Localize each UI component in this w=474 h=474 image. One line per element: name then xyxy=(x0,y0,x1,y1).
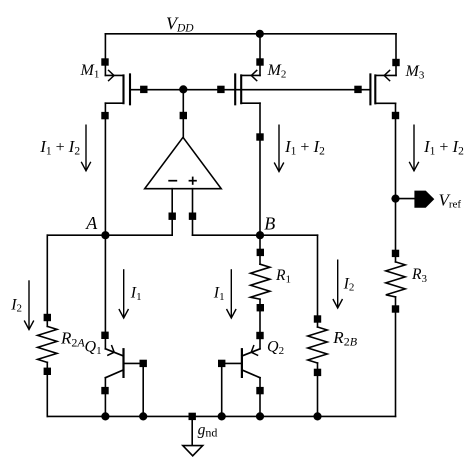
port square M3 source xyxy=(392,59,399,66)
junction dot gate bus xyxy=(179,85,187,93)
port square M3 gate xyxy=(354,86,361,93)
transistor M3 xyxy=(370,70,396,104)
junction dot Vref xyxy=(391,195,399,203)
port square Q1 base xyxy=(140,360,147,367)
node A xyxy=(101,231,109,239)
junction dot rail M2 xyxy=(256,30,264,38)
wire R2A branch upper xyxy=(46,235,48,326)
wire M3 source from rail xyxy=(395,34,397,76)
wire M1 source from rail xyxy=(104,34,106,76)
junction dot ground R2B xyxy=(313,412,321,420)
junction dot ground Q1 collector xyxy=(101,412,109,420)
port square Q2 collector xyxy=(256,387,263,394)
wire op-amp inverting input xyxy=(171,189,173,236)
wire M2 source from rail xyxy=(259,34,261,76)
port square R2B top xyxy=(314,315,321,322)
Vref output terminal xyxy=(414,191,434,208)
resistor R3 xyxy=(386,262,405,297)
current arrow I2 right xyxy=(333,260,343,309)
wire Vref tap xyxy=(396,198,415,200)
wire R2B branch upper xyxy=(317,235,319,327)
svg-text:B: B xyxy=(264,213,275,233)
svg-text:I1 + I2: I1 + I2 xyxy=(284,137,325,157)
current arrow I1+I2 middle xyxy=(274,125,284,172)
op-amp U1 xyxy=(145,137,222,188)
label op-amp minus xyxy=(168,180,177,182)
port square R2B bottom xyxy=(314,369,321,376)
port square M1 source xyxy=(101,58,108,65)
junction dot ground Q2 collector xyxy=(256,412,264,420)
wire M2 drain to node B xyxy=(259,103,261,235)
port square Q1 emitter xyxy=(101,332,108,339)
port square R1 top xyxy=(257,249,264,256)
port square R3 top xyxy=(392,250,399,257)
wire Q2 base to ground xyxy=(221,363,223,416)
port square M3 drain xyxy=(392,112,399,119)
port square M2 drain xyxy=(256,133,263,140)
current arrow I1+I2 left xyxy=(81,125,91,171)
port square M1 gate xyxy=(140,86,147,93)
wire R2B lower to ground xyxy=(317,363,319,416)
wire M3 drain to Vref node and R3 xyxy=(395,103,397,262)
transistor Q2 xyxy=(222,346,260,378)
junction dot ground Q1 base xyxy=(139,412,147,420)
wire M1 drain to node A xyxy=(104,103,106,235)
resistor R2B xyxy=(308,327,327,363)
wire R1 to Q2 emitter xyxy=(259,299,261,349)
wire Q1 emitter from node A xyxy=(104,235,106,349)
wire R1 from node B xyxy=(259,235,261,264)
current arrow I1+I2 right xyxy=(409,125,419,171)
port square M1 drain xyxy=(101,112,108,119)
wire Q1 base to ground xyxy=(142,363,144,416)
wire Q2 collector to ground xyxy=(259,378,261,417)
wire ground row xyxy=(47,415,395,417)
port square R2A top xyxy=(44,314,51,321)
transistor M1 xyxy=(105,70,130,104)
port square M2 gate xyxy=(217,86,224,93)
wire gate bus xyxy=(130,89,370,91)
svg-text:I1 + I2: I1 + I2 xyxy=(423,137,464,157)
port square R3 bottom xyxy=(392,305,399,312)
svg-text:I1 + I2: I1 + I2 xyxy=(39,137,80,157)
ground symbol xyxy=(183,446,203,456)
port square op-amp non-inverting xyxy=(189,213,196,220)
current arrow I2 left xyxy=(24,280,34,329)
wire R3 lower to ground xyxy=(395,297,397,417)
label op-amp plus xyxy=(189,177,197,185)
port square Q2 base xyxy=(218,360,225,367)
port square Q2 emitter xyxy=(256,332,263,339)
wire Q1 collector to ground xyxy=(104,378,106,417)
node B xyxy=(256,231,264,239)
port square R2A bottom xyxy=(44,368,51,375)
svg-text:A: A xyxy=(85,213,98,233)
port square Q1 collector xyxy=(101,387,108,394)
current arrow I1 right xyxy=(227,269,237,318)
transistor Q1 xyxy=(105,346,143,378)
port square op-amp output xyxy=(180,112,187,119)
resistor R1 xyxy=(251,264,270,299)
wire R2A lower to ground xyxy=(46,362,48,416)
current arrow I1 left xyxy=(119,269,129,318)
wire op-amp non-inverting input xyxy=(192,189,194,236)
port square ground tap xyxy=(189,413,196,420)
port square R1 bottom xyxy=(257,304,264,311)
port square M2 source xyxy=(256,58,263,65)
junction dot ground Q2 base xyxy=(218,412,226,420)
resistor R2A xyxy=(38,326,57,362)
wire node B row xyxy=(193,234,318,236)
wire op-amp output xyxy=(182,90,184,138)
wire ground stem xyxy=(191,416,193,445)
wire node A row xyxy=(47,234,172,236)
transistor M2 xyxy=(235,70,260,104)
port square op-amp inverting xyxy=(169,213,176,220)
wire VDD top rail xyxy=(105,33,396,35)
